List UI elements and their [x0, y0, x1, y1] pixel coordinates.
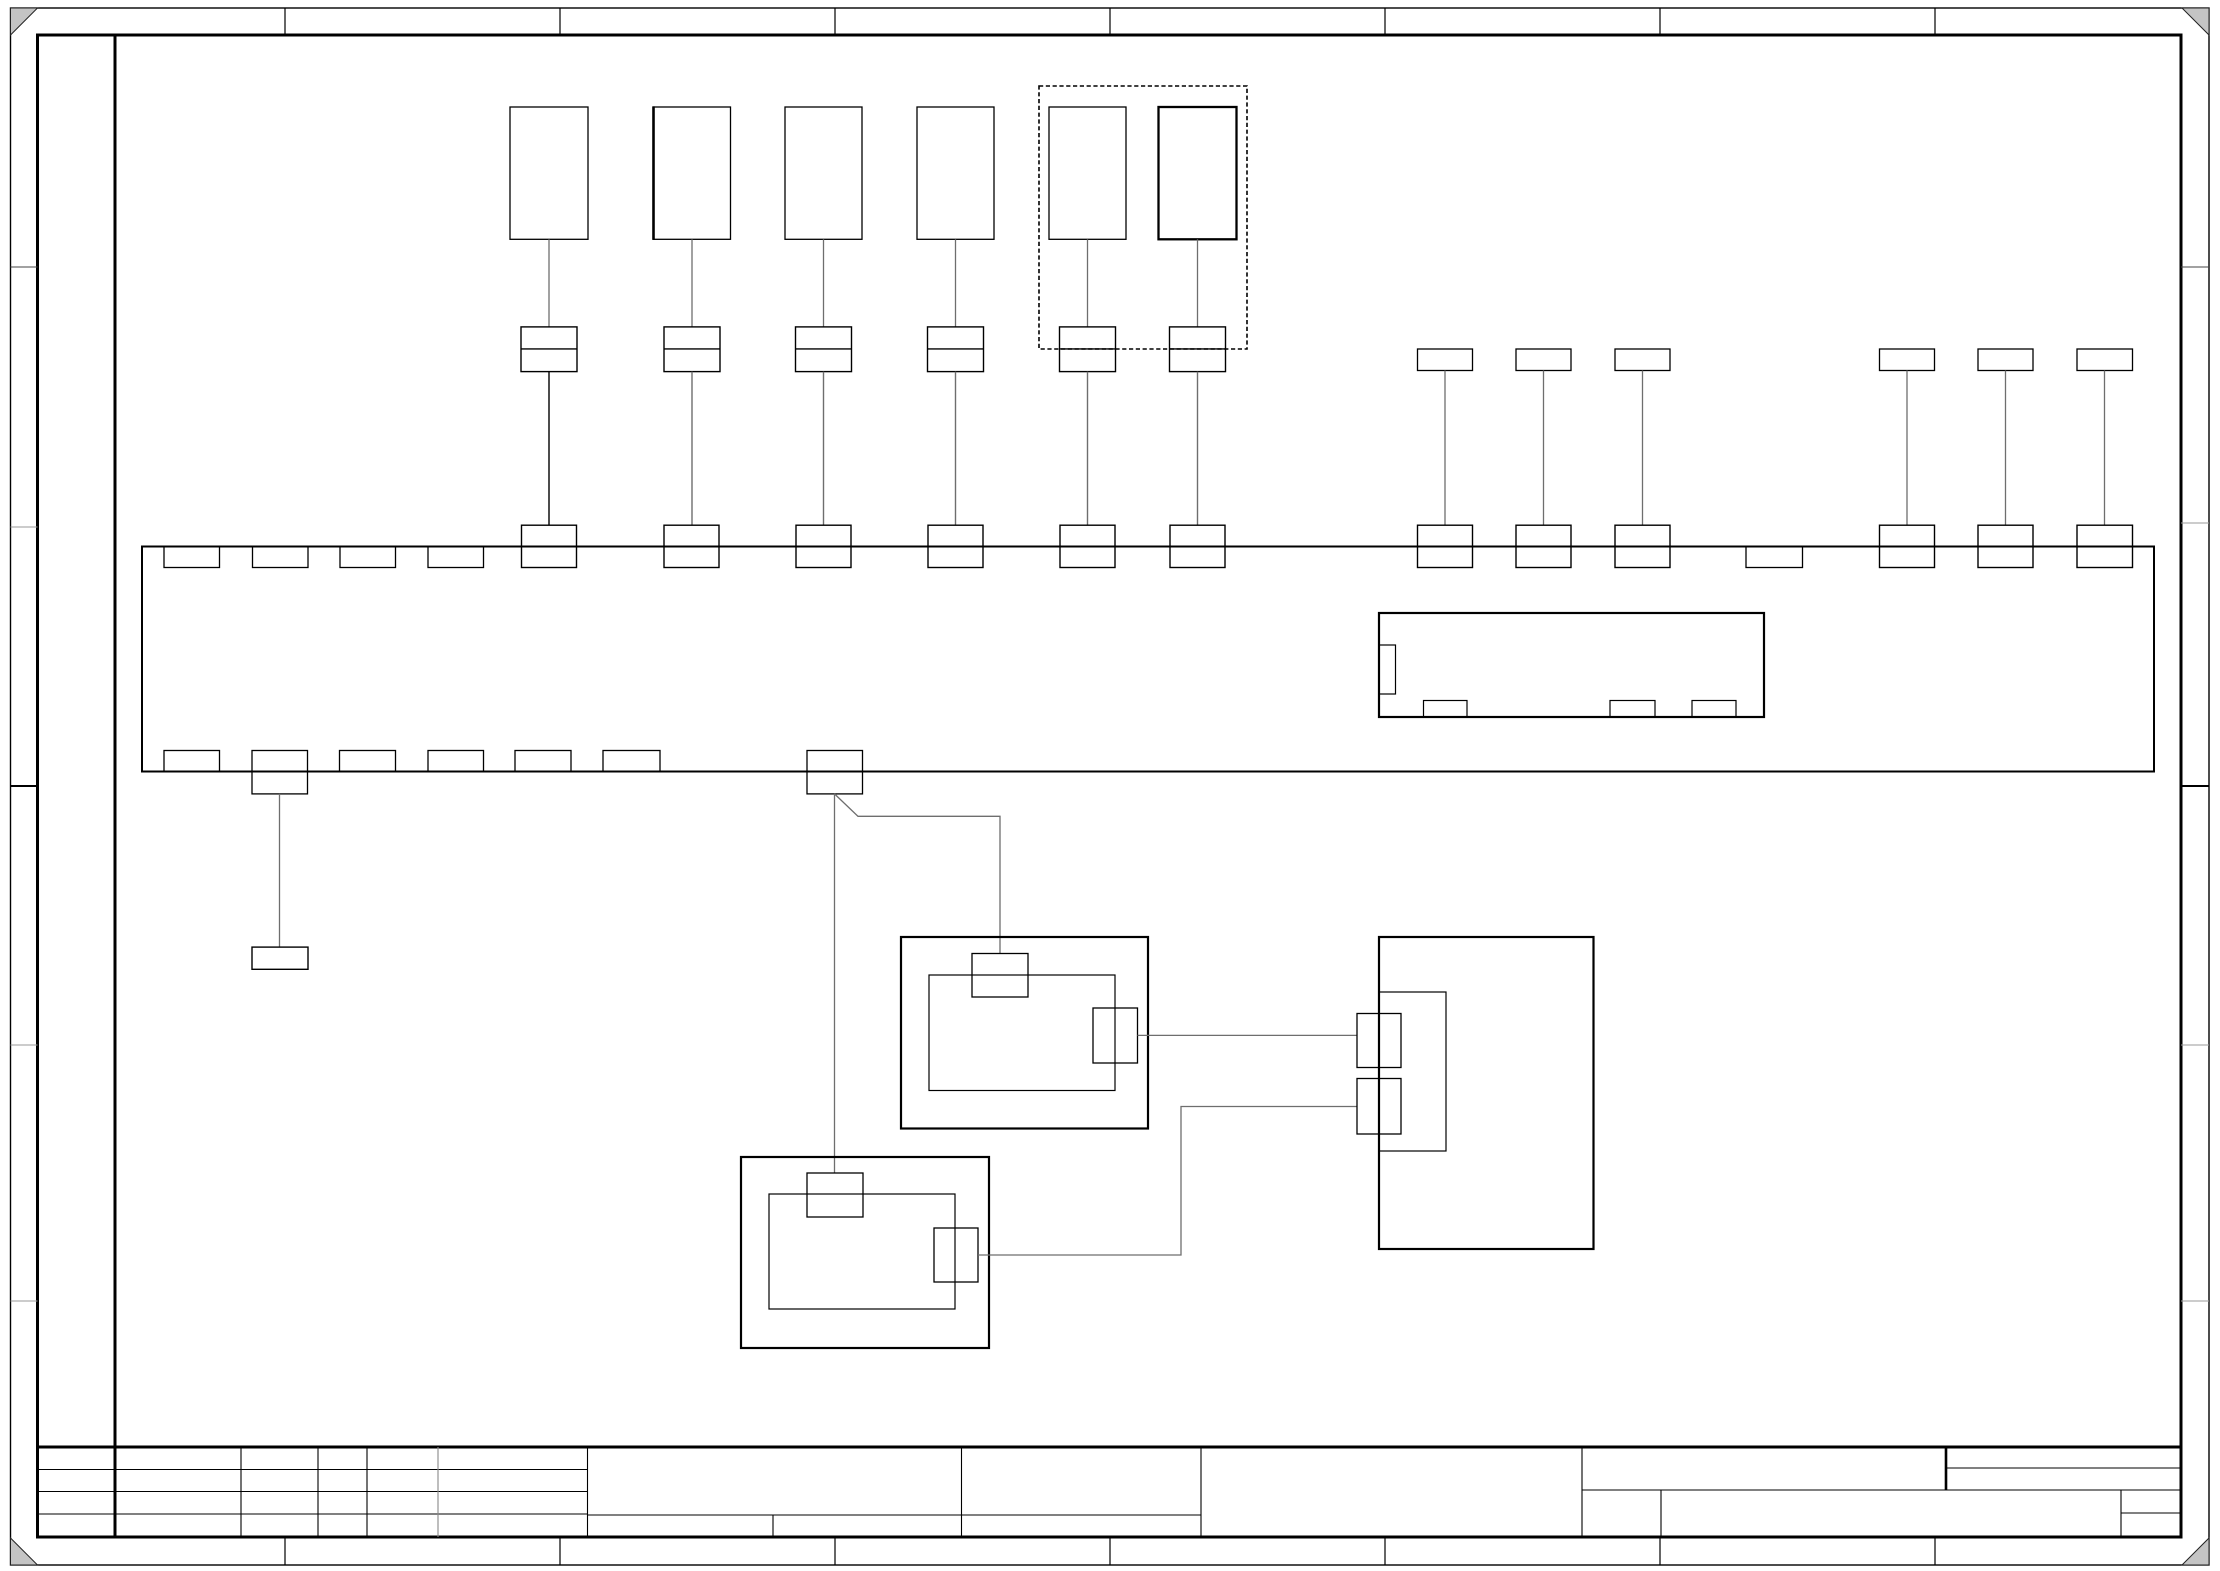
sensor S6 [2077, 349, 2133, 371]
output terminal B7 (straddling) [807, 751, 863, 794]
sensor S5 [1978, 349, 2033, 371]
breaker F4 [928, 327, 984, 372]
D1 connector J1 [972, 954, 1028, 998]
U1 tab P3 [1610, 701, 1655, 718]
module M6 [1159, 107, 1237, 239]
spare terminal T1 [164, 547, 220, 568]
breaker F2 [664, 327, 720, 372]
terminal X9 [1615, 525, 1670, 567]
wire F5-X5 [1087, 372, 1089, 526]
wire F6-X6 [1197, 372, 1199, 526]
wire D2 to E1 [978, 1107, 1357, 1256]
breaker F6 [1170, 327, 1226, 372]
wire M5-F5 [1087, 239, 1089, 327]
U1 tab P2 [1424, 701, 1468, 718]
terminal X13 [2077, 525, 2133, 567]
module M5 [1049, 107, 1126, 239]
wire S6-X12 [2104, 371, 2106, 526]
wire B7 to device D2 [834, 794, 836, 1173]
D1 body [929, 975, 1115, 1091]
module M4 [917, 107, 994, 239]
terminal X7 [1418, 525, 1473, 567]
U1 tab P4 [1692, 701, 1736, 718]
wire S5-X11 [2005, 371, 2007, 526]
D2 body [769, 1194, 955, 1309]
E1 connector K2 [1357, 1079, 1401, 1135]
wire B2 to G1 [279, 794, 281, 947]
terminal X8 [1516, 525, 1571, 567]
dashed group enclosure [1039, 86, 1247, 349]
terminal X5 [1060, 525, 1115, 567]
wire F4-X4 [955, 372, 957, 526]
wire S2-X8 [1543, 371, 1545, 526]
D1 connector J2 [1093, 1008, 1138, 1063]
module M2 [654, 106, 731, 240]
spare terminal T3 [340, 547, 396, 568]
sensor S1 [1418, 349, 1473, 371]
ground terminal G1 [252, 947, 308, 969]
controller unit U1 (inside rack) [1379, 613, 1764, 717]
output terminal B1 [164, 751, 220, 772]
spare terminal T5 [1746, 547, 1803, 568]
sensor S4 [1880, 349, 1935, 371]
device D2 enclosure [741, 1157, 989, 1348]
wire M4-F4 [955, 239, 957, 327]
module M1 [510, 107, 588, 239]
wire S1-X7 [1444, 371, 1446, 526]
wire F3-X3 [823, 372, 825, 526]
E1 body [1379, 992, 1446, 1151]
wire D1 to E1 [1138, 1034, 1358, 1036]
wire F1-X1 [548, 372, 550, 526]
terminal X10 [1880, 525, 1935, 567]
output terminal B2 (straddling) [252, 751, 308, 794]
breaker F3 [796, 327, 852, 372]
wire M6-F6 [1197, 239, 1199, 327]
breaker F1 [521, 327, 577, 372]
terminal X6 [1170, 525, 1225, 567]
wire S3-X9 [1642, 371, 1644, 526]
module M3 [785, 107, 862, 239]
sensor S2 [1516, 349, 1571, 371]
terminal X2 [664, 525, 719, 567]
rack / cabinet enclosure [142, 547, 2154, 772]
output terminal B5 [515, 751, 571, 772]
terminal X1 (bus, straddling) [522, 525, 577, 567]
U1 port P1 [1379, 645, 1396, 694]
interface unit E1 enclosure [1379, 937, 1594, 1249]
wire M1-F1 [548, 239, 550, 327]
terminal X11 [1978, 525, 2033, 567]
spare terminal T2 [253, 547, 309, 568]
sensor S3 [1615, 349, 1670, 371]
wire F2-X2 [691, 372, 693, 526]
spare terminal T4 [428, 547, 484, 568]
wire B7 to device D1 [835, 794, 1001, 954]
wire M3-F3 [823, 239, 825, 327]
terminal X4 [928, 525, 983, 567]
device D1 enclosure [901, 937, 1148, 1129]
D2 connector J3 [807, 1173, 863, 1217]
output terminal B4 [428, 751, 484, 772]
wire S4-X10 [1906, 371, 1908, 526]
terminal X3 [796, 525, 851, 567]
output terminal B3 [340, 751, 396, 772]
E1 connector K1 [1357, 1014, 1401, 1068]
wire M2-F2 [691, 239, 693, 327]
D2 connector J4 [934, 1228, 978, 1282]
output terminal B6 [603, 751, 660, 772]
breaker F5 [1060, 327, 1116, 372]
